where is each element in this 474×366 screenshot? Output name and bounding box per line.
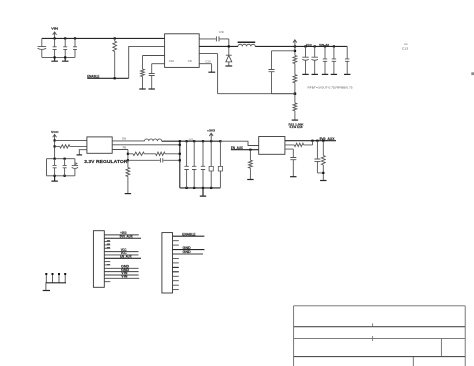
svg-text:0.1% 1/16: 0.1% 1/16	[290, 126, 304, 129]
pin J2-10	[173, 275, 179, 277]
ground R2	[139, 88, 145, 90]
pin J2-1 ENABLE	[173, 233, 205, 237]
ground R9	[320, 180, 326, 182]
pin J2-7	[173, 262, 179, 264]
capacitor C9 bootstrap	[199, 31, 229, 47]
ground C26	[290, 176, 296, 178]
wire U1 pin3	[143, 55, 165, 57]
wire U2 gnd	[79, 150, 87, 155]
node edge mark	[471, 72, 474, 75]
pin J1-1 +3V3	[104, 231, 139, 235]
pin J2-4 GND	[173, 246, 205, 250]
pin J1-10	[104, 264, 110, 266]
diode D1	[226, 48, 232, 66]
ground cap box	[51, 176, 57, 181]
resistor R4	[128, 152, 156, 155]
wire bank bottom rail	[180, 187, 221, 189]
wire U2 SW	[112, 140, 144, 142]
title block frame	[294, 306, 466, 366]
wire 3V3 rail	[162, 140, 221, 142]
capacitor C7	[322, 46, 328, 74]
pin J1-6 VCC	[104, 248, 138, 252]
ground bank	[200, 188, 206, 196]
resistor R5	[156, 152, 180, 155]
capacitor C1 electrolytic input	[38, 38, 47, 57]
resistor R2	[141, 56, 145, 89]
wire jog to U3	[220, 141, 258, 145]
inductor L2	[145, 139, 162, 141]
capacitor C4	[73, 38, 77, 57]
wire U2 FB	[112, 150, 128, 161]
capacitor C2	[53, 38, 57, 57]
wire SW node	[199, 45, 238, 47]
wire input bottom rail	[42, 56, 75, 58]
svg-text:C20: C20	[205, 59, 211, 63]
title block tick marks	[372, 323, 374, 341]
resistor R9 load	[321, 141, 325, 181]
ground R7	[247, 179, 253, 181]
ground D1	[225, 65, 232, 67]
resistor R7 pulldown	[249, 150, 253, 180]
pin J2-11	[173, 280, 179, 282]
svg-text:+3V3: +3V3	[207, 128, 216, 132]
pin J2-9	[173, 271, 179, 273]
capacitor C3	[63, 38, 67, 57]
wire enable to U1	[129, 46, 165, 78]
pin J2-8	[173, 266, 179, 268]
pin J1-2 5V0_AUX	[104, 235, 141, 239]
wire cap box rails	[47, 159, 75, 176]
svg-text:C10: C10	[169, 59, 175, 63]
pin J2-5 GND	[173, 250, 204, 254]
wire VCC rail	[255, 45, 347, 47]
pin J1-9	[104, 261, 110, 263]
power +3V3 arrow	[207, 128, 216, 141]
wire VCC feed	[54, 140, 56, 158]
svg-text:VCC: VCC	[306, 43, 312, 47]
svg-text:5V0_AUX: 5V0_AUX	[320, 137, 336, 141]
node nc C13	[402, 43, 409, 50]
power VCC arrow	[293, 40, 297, 47]
capacitor C11	[331, 46, 337, 74]
pin J2-6	[173, 258, 179, 260]
connector J2	[162, 233, 173, 293]
resistor R6 shunt	[126, 160, 130, 193]
resistor RFBT1	[293, 46, 297, 74]
op-amp U1 buck regulator	[165, 34, 200, 68]
ground C_ss	[149, 88, 155, 90]
resistor R8 fb	[285, 141, 313, 147]
pin J1-14 VIN	[104, 275, 139, 279]
pin J1-8 EN_AUX	[104, 255, 141, 259]
capacitor C6 electrolytic	[312, 46, 318, 74]
capacitor C16 electrolytic	[72, 159, 78, 176]
pin J1-13 VIN	[104, 271, 138, 275]
connector TP header	[43, 273, 66, 291]
node VIN junctions	[54, 37, 116, 39]
capacitor C14	[53, 159, 57, 176]
svg-text:3V3: 3V3	[188, 138, 193, 141]
svg-text:C13: C13	[402, 46, 409, 50]
capacitor C26 bypass	[285, 149, 296, 176]
wire U3 out rail	[285, 140, 336, 142]
ground U2	[77, 154, 83, 156]
capacitor C22	[192, 141, 196, 188]
svg-text:C8: C8	[188, 59, 192, 63]
op-amp U2 3.3V regulator	[87, 137, 112, 153]
svg-text:VIN: VIN	[51, 27, 58, 31]
pin J2-13	[173, 289, 179, 291]
wire U1 pin4	[152, 63, 165, 65]
ground input right	[62, 57, 69, 61]
pin J1-5	[104, 246, 110, 249]
capacitor C15	[63, 159, 67, 176]
resistor RFBB	[293, 94, 297, 120]
op-amp U3 aux regulator	[259, 137, 285, 155]
pin J1-15	[104, 281, 110, 283]
pin J1-3	[104, 240, 110, 243]
ground R6	[125, 193, 131, 195]
svg-text:3.3V REGULATOR: 3.3V REGULATOR	[84, 159, 128, 164]
title block dark rows	[294, 327, 466, 357]
svg-text:VCC: VCC	[51, 130, 59, 134]
wire U2 VIN	[55, 139, 87, 141]
capacitor C23	[201, 141, 205, 188]
ground RFBB	[292, 119, 298, 121]
pin J1-12 GND	[104, 268, 138, 272]
node EN_AUX	[231, 146, 259, 151]
capacitor C21	[184, 141, 188, 188]
pin J2-2	[173, 240, 179, 242]
ground pin C20	[208, 71, 215, 73]
pin J1-11 GND	[104, 265, 138, 269]
pin J1-7 VCC	[104, 251, 138, 255]
capacitor C17 series	[128, 158, 180, 162]
resistor R3 enable	[55, 145, 87, 148]
svg-text:5V0_5A: 5V0_5A	[319, 43, 329, 47]
pin J1-4	[104, 243, 110, 246]
svg-text:FB: FB	[123, 147, 127, 150]
power VIN	[51, 27, 58, 39]
power VCC row2	[51, 130, 59, 140]
inductor L1	[238, 42, 256, 47]
ground input left	[51, 57, 58, 61]
pin J2-12	[173, 284, 179, 286]
capacitor C5 electrolytic	[302, 46, 308, 74]
capacitor C24 boxed	[209, 141, 213, 188]
connector J1	[93, 231, 104, 288]
wire input top rail	[42, 37, 165, 39]
capacitor C12	[344, 46, 350, 74]
resistor RFBT2	[293, 75, 297, 94]
wire U1 pin C20	[199, 59, 211, 72]
capacitor C27 output	[314, 141, 323, 173]
capacitor C_ss	[149, 64, 155, 89]
capacitor C_ff feedforward	[269, 51, 295, 94]
svg-text:RFBT=(VOUT-0.75)*RFBB/0.75: RFBT=(VOUT-0.75)*RFBB/0.75	[308, 87, 354, 90]
resistor R1 enable pull-up	[113, 38, 117, 78]
wire bank left edge	[179, 141, 181, 188]
wire U2 VOS	[112, 144, 180, 146]
node ENABLE	[87, 75, 129, 80]
wire FB sense	[199, 54, 295, 94]
capacitor C25 boxed	[218, 141, 222, 188]
pin J2-3	[173, 244, 179, 246]
